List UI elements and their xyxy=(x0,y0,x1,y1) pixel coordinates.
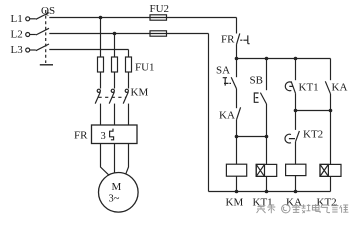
wire L2 horizontal xyxy=(49,33,208,35)
svg-text:L3: L3 xyxy=(11,44,24,56)
svg-text:QS: QS xyxy=(41,5,55,17)
wire FU1 to KM phase C xyxy=(128,72,130,89)
node mid right xyxy=(329,109,333,113)
switch QS linkage dashed line xyxy=(45,10,47,63)
wire L1 horizontal xyxy=(49,17,236,19)
wire KA contact to KT2 coil xyxy=(330,94,332,165)
relay contact KA blade (right) xyxy=(325,81,330,94)
svg-text:KT1: KT1 xyxy=(299,82,319,94)
fuse FU2b body xyxy=(150,31,167,36)
node KT1 rail xyxy=(265,190,269,194)
contactor KM main contact 2 fixed circle xyxy=(111,89,114,92)
node KT1 branch top xyxy=(294,57,298,61)
wire KM to FR phase C xyxy=(128,104,130,125)
wire phase B drop xyxy=(114,34,116,58)
contactor coil KM xyxy=(226,164,246,176)
node KA rail xyxy=(294,190,298,194)
contactor KM main contact 3 fixed circle xyxy=(125,89,128,92)
time contact KT2 delay arc xyxy=(285,134,295,143)
wire KA contact to KM coil xyxy=(236,120,238,165)
wire KT2 coil to rail xyxy=(330,176,332,191)
switch SA blade xyxy=(231,77,236,89)
svg-text:KA: KA xyxy=(286,197,302,209)
wire phase A drop xyxy=(100,18,102,58)
thermal contact FR latch hook xyxy=(240,35,249,43)
motor M circle xyxy=(99,173,139,213)
wire FR to motor phase B xyxy=(114,144,116,173)
time relay coil KT1 cross lines xyxy=(256,164,264,176)
svg-text:KA: KA xyxy=(332,82,348,94)
svg-text:FR: FR xyxy=(74,130,88,142)
svg-text:3~: 3~ xyxy=(109,194,120,205)
wire L1 to FR contact (control feed) xyxy=(236,18,238,34)
switch QS linkage bar xyxy=(40,64,53,66)
node SB branch top xyxy=(265,57,269,61)
time relay coil KT1 crossed section xyxy=(256,164,264,176)
svg-text:KT2: KT2 xyxy=(303,129,323,141)
fuse FU2a body xyxy=(150,15,167,20)
contactor KM main contact 1 blade xyxy=(95,92,100,104)
switch QS pole 2 blade xyxy=(36,28,49,35)
svg-text:L2: L2 xyxy=(11,28,23,40)
wire SA to KA contact xyxy=(236,89,238,109)
wire left rail (L2 down) xyxy=(208,34,210,192)
wire FU1 to KM phase A xyxy=(100,72,102,89)
node link left xyxy=(235,135,239,139)
wire phase C drop xyxy=(128,50,130,58)
node after FR xyxy=(235,57,239,61)
wire L1 stub xyxy=(30,18,36,20)
svg-text:FR: FR xyxy=(221,34,235,46)
wire KT1 contact upper stub xyxy=(295,59,297,81)
thermal relay FR heater box xyxy=(92,125,138,144)
wire KT2 contact to KA coil xyxy=(295,142,297,165)
time relay coil KT2 body xyxy=(320,164,341,176)
wire KT2 contact upper stub xyxy=(295,111,297,130)
svg-text:SA: SA xyxy=(216,65,230,77)
pushbutton SB blade xyxy=(260,93,266,104)
svg-text:KT2: KT2 xyxy=(317,197,337,209)
time relay coil KT2 cross lines xyxy=(320,164,328,176)
wire FU1 to KM phase B xyxy=(114,72,116,89)
switch QS pole 1 blade xyxy=(36,13,49,20)
svg-text:M: M xyxy=(112,181,122,193)
wire FR contact to node xyxy=(236,44,238,58)
wire SB upper stub xyxy=(266,59,268,91)
terminal circle L1 xyxy=(26,17,30,21)
wire FR to motor phase A xyxy=(101,144,109,175)
wire SA upper stub xyxy=(236,59,238,78)
node mid left xyxy=(294,109,298,113)
svg-text:KM: KM xyxy=(131,87,149,99)
wire L2 stub xyxy=(30,34,36,36)
time contact KT1 delay arc xyxy=(285,82,292,91)
svg-text:KA: KA xyxy=(219,110,235,122)
svg-text:L1: L1 xyxy=(11,13,23,25)
wire FR to motor phase C xyxy=(126,144,129,175)
pushbutton SB actuator xyxy=(254,93,258,102)
wire L3 stub xyxy=(30,49,36,51)
fuse FU1 phase A body xyxy=(98,57,104,72)
contactor KM main contact 2 blade xyxy=(109,92,114,104)
wire L3 horizontal xyxy=(49,49,128,51)
wire KM to FR phase B xyxy=(114,104,116,125)
wire KT1 coil to rail xyxy=(266,176,268,191)
wire KM to FR phase A xyxy=(100,104,102,125)
svg-text:FU2: FU2 xyxy=(150,3,170,15)
thermal contact FR blade xyxy=(237,33,240,44)
svg-text:3: 3 xyxy=(101,131,106,142)
wire KA contact upper stub xyxy=(330,59,332,81)
switch SA manual actuator xyxy=(223,78,231,86)
time contact KT2 blade xyxy=(296,131,300,142)
time relay coil KT2 crossed section xyxy=(320,164,328,176)
terminal circle L2 xyxy=(26,33,30,37)
node on L1 (phase A tap) xyxy=(99,16,103,20)
svg-text:FU1: FU1 xyxy=(135,62,155,74)
relay contact KA blade (seal-in) xyxy=(237,107,241,119)
wire SB to KT1 coil xyxy=(266,104,268,164)
time contact KT1 blade xyxy=(291,81,295,93)
contactor KM main contact 1 fixed circle xyxy=(97,89,100,92)
contactor KM linkage dashed xyxy=(99,96,127,98)
switch QS pole 3 blade xyxy=(36,44,49,51)
wire KM coil to rail xyxy=(236,176,238,191)
node KM rail xyxy=(235,190,239,194)
node on L2 (phase B tap) xyxy=(113,32,117,36)
terminal circle L3 xyxy=(26,48,30,52)
svg-text:KM: KM xyxy=(226,197,244,209)
wire link A-B xyxy=(237,136,267,138)
time relay coil KT1 body xyxy=(256,164,277,176)
node link right xyxy=(265,135,269,139)
fuse FU1 phase B body xyxy=(112,57,118,72)
contactor KM main contact 3 blade xyxy=(123,92,128,104)
wire bottom rail xyxy=(209,191,331,193)
wire top node line xyxy=(237,58,331,60)
wire link C-D xyxy=(296,110,331,112)
wire KA coil to rail xyxy=(295,176,297,192)
watermark xyxy=(257,204,349,213)
thermal element symbol xyxy=(110,129,114,140)
wire KT1 contact to node xyxy=(295,93,297,110)
svg-text:SB: SB xyxy=(250,75,263,87)
relay coil KA xyxy=(286,164,306,175)
fuse FU1 phase C body xyxy=(126,57,132,72)
